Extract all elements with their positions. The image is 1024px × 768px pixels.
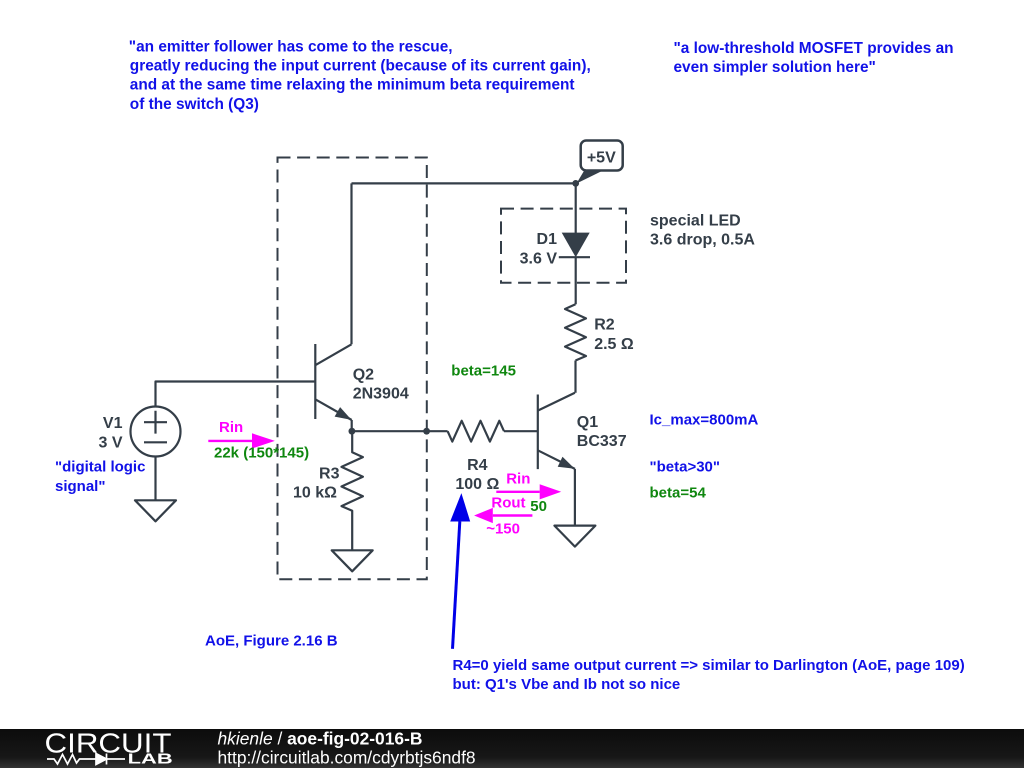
label R3 10 kΩ: [293, 466, 340, 502]
wire: +5V node to D1: [575, 183, 577, 233]
svg-text:V1: V1: [103, 415, 123, 432]
svg-text:"beta>30": "beta>30": [650, 459, 721, 476]
annotation: emitter follower note: [129, 39, 591, 113]
logo resistor-diode symbol: [47, 754, 125, 765]
footer bar: [0, 729, 1024, 768]
svg-text:2N3904: 2N3904: [353, 385, 409, 402]
arrow Rout: [474, 495, 532, 524]
resistor R3: [342, 431, 363, 550]
svg-text:"an emitter follower has come: "an emitter follower has come to the res…: [129, 39, 453, 56]
svg-text:Rin: Rin: [219, 419, 243, 436]
label special LED: [650, 213, 755, 249]
arrow Rin (input): [208, 419, 275, 448]
svg-text:R3: R3: [319, 466, 340, 483]
voltage source V1: [131, 407, 181, 457]
label V1 3 V: [98, 415, 122, 452]
ground (Q1): [554, 526, 595, 547]
power flag +5V: [577, 141, 623, 184]
svg-text:http://circuitlab.com/cdyrbtjs: http://circuitlab.com/cdyrbtjs6ndf8: [218, 747, 476, 767]
svg-text:+5V: +5V: [587, 150, 616, 167]
svg-text:3.6 V: 3.6 V: [520, 250, 558, 267]
wire: D1 to R2: [575, 257, 577, 304]
transistor Q2: [315, 344, 351, 420]
svg-text:22k (150*145): 22k (150*145): [214, 445, 309, 462]
svg-text:hkienle / aoe-fig-02-016-B: hkienle / aoe-fig-02-016-B: [218, 728, 423, 748]
svg-text:beta=54: beta=54: [650, 485, 707, 502]
svg-text:2.5 Ω: 2.5 Ω: [594, 336, 634, 353]
svg-text:Rout: Rout: [491, 495, 525, 512]
svg-text:but: Q1's Vbe and Ib not so ni: but: Q1's Vbe and Ib not so nice: [453, 676, 681, 693]
svg-text:R4: R4: [467, 457, 488, 474]
node B: [423, 428, 430, 435]
node: +5V junction: [572, 180, 579, 187]
arrow Rin (Q1): [496, 471, 561, 500]
wire: Q1 emitter to ground: [574, 469, 576, 525]
label Q1 BC337: [577, 414, 627, 450]
svg-text:"digital logic: "digital logic: [55, 459, 145, 476]
ground (R3): [332, 550, 373, 571]
svg-text:3.6 drop, 0.5A: 3.6 drop, 0.5A: [650, 232, 755, 249]
dashed box (LED group): [501, 209, 626, 283]
svg-text:3 V: 3 V: [98, 435, 122, 452]
svg-text:50: 50: [530, 498, 547, 515]
svg-text:R4=0 yield same output current: R4=0 yield same output current => simila…: [453, 657, 965, 674]
svg-text:~150: ~150: [486, 520, 520, 537]
wire: Q2 emitter drop: [351, 420, 353, 431]
annotation: digital logic signal: [55, 459, 145, 495]
diode D1: [559, 233, 590, 258]
wire: top rail: [352, 182, 576, 184]
wire: V1 to ground: [154, 457, 156, 501]
ground (V1): [135, 500, 176, 521]
dashed box (emitter follower group): [278, 158, 427, 580]
resistor R4: [448, 421, 504, 442]
wire: R4 to Q1 base: [504, 430, 538, 432]
svg-text:signal": signal": [55, 478, 105, 495]
svg-text:greatly reducing the input cur: greatly reducing the input current (beca…: [130, 58, 591, 75]
svg-text:D1: D1: [537, 231, 558, 248]
svg-text:"a low-threshold MOSFET provid: "a low-threshold MOSFET provides an: [674, 40, 954, 57]
node A: [349, 428, 356, 435]
annotation: MOSFET note: [674, 40, 954, 76]
wire: Q2 collector riser: [350, 183, 352, 344]
label R2 2.5 Ω: [594, 317, 634, 353]
resistor R2: [565, 304, 586, 360]
annotation: R4=0 note: [453, 657, 965, 693]
svg-text:AoE, Figure 2.16 B: AoE, Figure 2.16 B: [205, 633, 338, 650]
svg-text:R2: R2: [594, 317, 615, 334]
label D1 3.6 V: [520, 231, 558, 267]
svg-text:beta=145: beta=145: [451, 362, 516, 379]
svg-text:special LED: special LED: [650, 213, 741, 230]
svg-text:10 kΩ: 10 kΩ: [293, 484, 337, 501]
svg-text:Rin: Rin: [506, 471, 530, 488]
wire: R2 to Q1 collector: [574, 361, 576, 393]
svg-text:100 Ω: 100 Ω: [455, 476, 499, 493]
svg-text:Q2: Q2: [353, 366, 374, 383]
svg-text:Ic_max=800mA: Ic_max=800mA: [650, 411, 759, 428]
svg-text:and at the same time relaxing: and at the same time relaxing the minimu…: [130, 77, 575, 94]
svg-text:of the switch (Q3): of the switch (Q3): [130, 96, 259, 113]
transistor Q1: [538, 393, 575, 469]
arrow: R4 callout: [450, 493, 470, 649]
svg-text:LAB: LAB: [128, 750, 173, 767]
wire: V1 to Q2 base: [156, 382, 316, 407]
svg-text:even simpler solution here": even simpler solution here": [674, 59, 876, 76]
svg-text:BC337: BC337: [577, 433, 627, 450]
svg-text:Q1: Q1: [577, 414, 598, 431]
wire: node A to R4: [352, 430, 448, 432]
label R4 100 Ω: [455, 457, 499, 493]
label Q2 2N3904: [353, 366, 409, 402]
